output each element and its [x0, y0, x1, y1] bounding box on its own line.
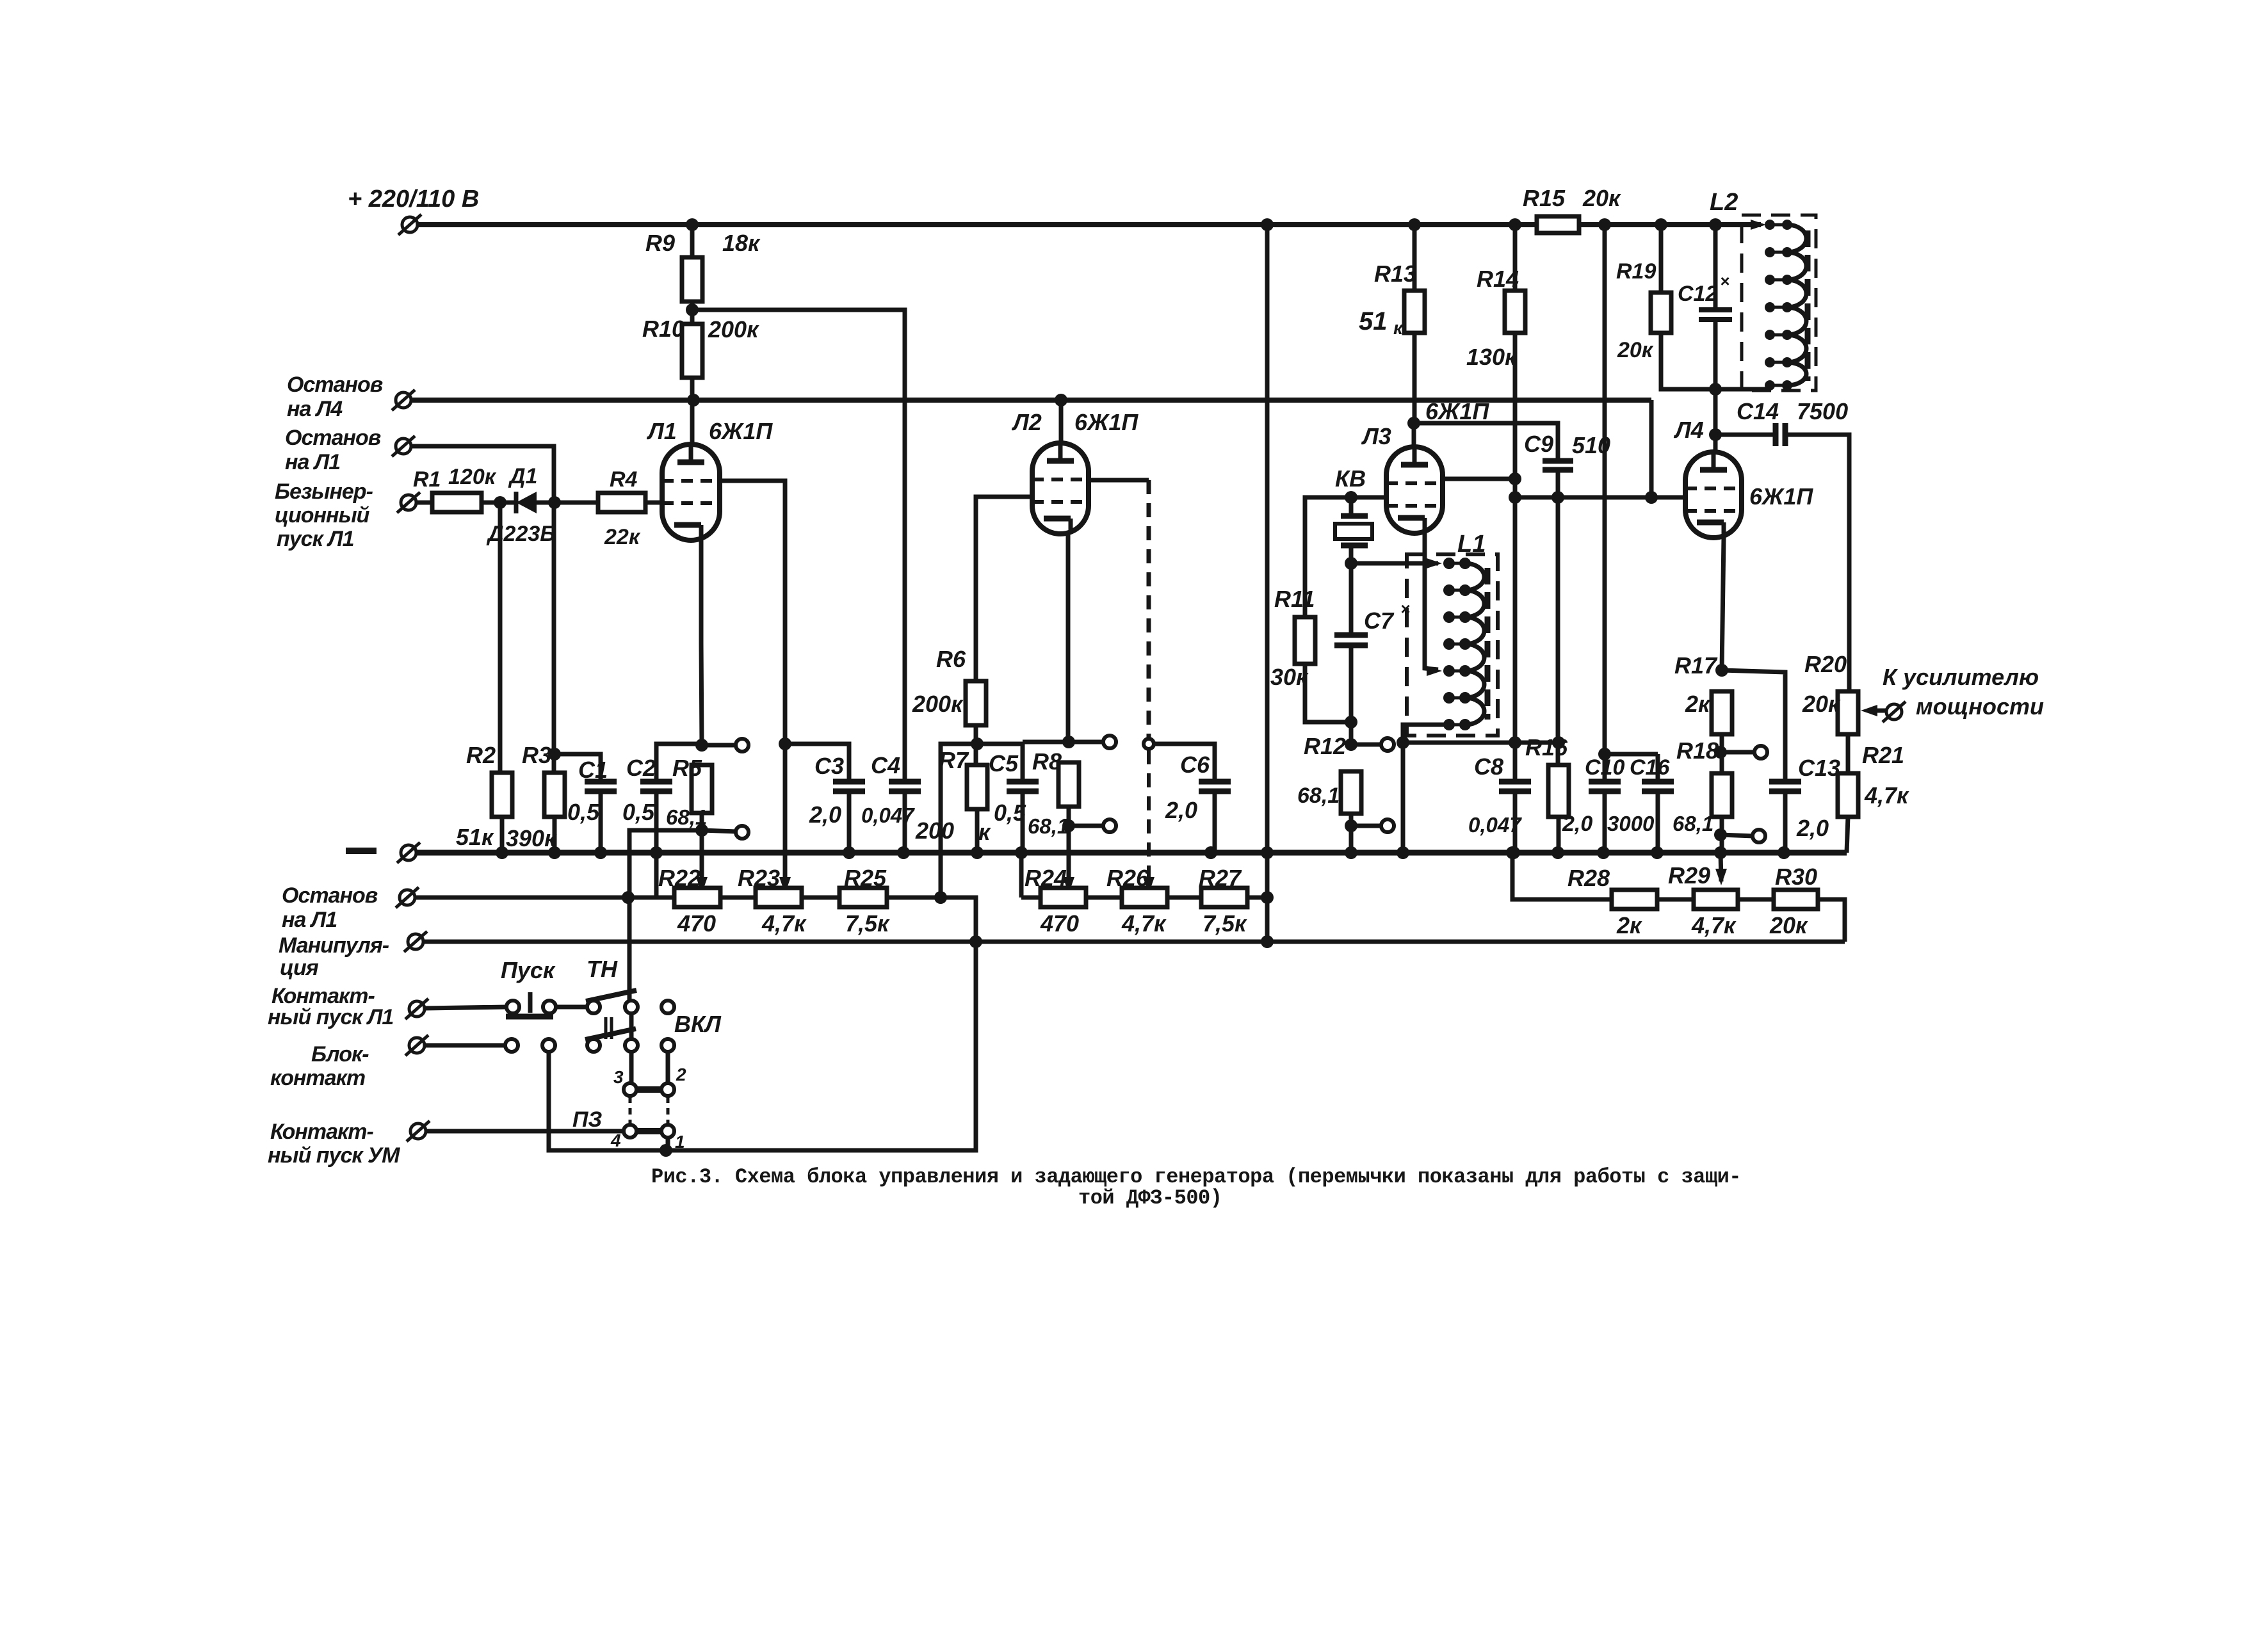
svg-text:390к: 390к — [506, 825, 557, 851]
svg-text:0,047: 0,047 — [861, 803, 915, 827]
svg-text:2к: 2к — [1685, 691, 1711, 717]
svg-text:R19: R19 — [1616, 259, 1656, 284]
svg-text:R14: R14 — [1477, 266, 1519, 292]
svg-text:Л3: Л3 — [1361, 423, 1391, 449]
svg-text:×: × — [1720, 271, 1729, 291]
svg-text:51: 51 — [1359, 307, 1388, 335]
svg-text:C3: C3 — [814, 753, 844, 779]
svg-text:0,047: 0,047 — [1468, 813, 1522, 837]
svg-text:2,0: 2,0 — [1796, 815, 1829, 841]
svg-text:200: 200 — [915, 817, 954, 844]
svg-text:R12: R12 — [1304, 733, 1346, 759]
svg-text:R27: R27 — [1199, 865, 1242, 891]
svg-text:к: к — [978, 819, 991, 845]
svg-text:4,7к: 4,7к — [761, 910, 807, 937]
svg-text:2,0: 2,0 — [809, 801, 841, 828]
svg-text:ПЗ: ПЗ — [572, 1107, 602, 1132]
svg-text:C1: C1 — [578, 757, 608, 783]
svg-text:R26: R26 — [1106, 865, 1149, 891]
svg-text:R25: R25 — [844, 865, 887, 891]
svg-text:Останов: Останов — [285, 426, 381, 450]
svg-text:2: 2 — [676, 1065, 686, 1084]
svg-text:22к: 22к — [604, 525, 641, 549]
svg-text:1: 1 — [675, 1132, 685, 1152]
svg-text:ция: ция — [280, 956, 319, 980]
svg-text:R11: R11 — [1274, 586, 1315, 612]
svg-text:ТН: ТН — [587, 956, 618, 982]
svg-text:51к: 51к — [456, 824, 494, 850]
svg-text:R6: R6 — [936, 646, 966, 672]
svg-text:R20: R20 — [1804, 651, 1847, 677]
svg-text:+ 220/110 В: + 220/110 В — [348, 186, 479, 213]
svg-text:68,1: 68,1 — [1673, 812, 1713, 835]
svg-text:R18: R18 — [1676, 737, 1719, 764]
svg-text:0,5: 0,5 — [622, 799, 655, 825]
svg-text:3000: 3000 — [1607, 812, 1655, 835]
svg-text:0,5: 0,5 — [567, 799, 600, 825]
svg-text:пуск Л1: пуск Л1 — [277, 527, 354, 551]
svg-text:R4: R4 — [610, 467, 638, 492]
svg-text:Л4: Л4 — [1673, 417, 1704, 443]
svg-text:68,1: 68,1 — [1297, 784, 1340, 808]
svg-text:R29: R29 — [1668, 862, 1710, 889]
svg-text:ный пуск УМ: ный пуск УМ — [268, 1143, 400, 1168]
svg-text:R10: R10 — [642, 316, 684, 342]
svg-text:Останов: Останов — [282, 883, 378, 908]
svg-text:18к: 18к — [722, 230, 761, 256]
svg-text:20к: 20к — [1617, 338, 1654, 362]
svg-text:120к: 120к — [448, 465, 497, 489]
svg-text:Безынер-: Безынер- — [275, 479, 373, 504]
svg-text:C13: C13 — [1798, 755, 1840, 781]
svg-text:C2: C2 — [626, 755, 656, 781]
svg-text:Останов: Останов — [287, 373, 383, 397]
svg-text:ный пуск Л1: ный пуск Л1 — [268, 1005, 393, 1029]
svg-text:R1: R1 — [413, 467, 441, 492]
svg-text:Блок-: Блок- — [311, 1042, 369, 1067]
svg-text:R17: R17 — [1674, 652, 1718, 679]
svg-text:6Ж1П: 6Ж1П — [1074, 409, 1138, 435]
svg-text:C7: C7 — [1364, 608, 1395, 634]
svg-text:C4: C4 — [871, 752, 900, 778]
svg-text:6Ж1П: 6Ж1П — [1425, 398, 1489, 424]
svg-text:2к: 2к — [1616, 912, 1642, 938]
svg-text:Контакт-: Контакт- — [270, 1120, 374, 1144]
svg-text:C5: C5 — [989, 750, 1019, 777]
svg-text:R13: R13 — [1374, 261, 1416, 287]
svg-text:6Ж1П: 6Ж1П — [1749, 483, 1813, 510]
svg-text:200к: 200к — [708, 316, 759, 342]
svg-text:R7: R7 — [939, 747, 969, 773]
svg-text:Пуск: Пуск — [501, 957, 556, 983]
svg-text:Л1: Л1 — [646, 418, 677, 444]
svg-text:Л2: Л2 — [1011, 409, 1042, 435]
svg-text:4,7к: 4,7к — [1121, 910, 1167, 937]
svg-text:68,1: 68,1 — [666, 805, 707, 829]
svg-text:4: 4 — [610, 1131, 621, 1150]
svg-text:3: 3 — [613, 1067, 624, 1087]
svg-text:C6: C6 — [1180, 752, 1210, 778]
svg-text:к: к — [1393, 318, 1404, 339]
svg-text:ВКЛ: ВКЛ — [674, 1011, 722, 1037]
svg-text:мощности: мощности — [1916, 693, 2044, 720]
svg-text:на Л1: на Л1 — [285, 450, 340, 474]
svg-text:C10: C10 — [1585, 755, 1624, 780]
svg-text:C16: C16 — [1630, 755, 1670, 780]
svg-text:R23: R23 — [738, 865, 780, 891]
svg-text:68,1: 68,1 — [1028, 814, 1069, 838]
svg-text:R22: R22 — [658, 865, 701, 891]
svg-text:470: 470 — [1040, 910, 1079, 937]
svg-text:ционный: ционный — [275, 503, 370, 527]
svg-text:R21: R21 — [1862, 742, 1904, 768]
svg-text:R24: R24 — [1025, 865, 1067, 891]
svg-text:C9: C9 — [1524, 431, 1553, 457]
svg-text:0,5: 0,5 — [994, 800, 1026, 826]
svg-text:R3: R3 — [522, 742, 551, 768]
svg-text:C14: C14 — [1737, 398, 1779, 424]
svg-text:7,5к: 7,5к — [845, 910, 890, 937]
svg-text:Рис.3. Схема блока управления: Рис.3. Схема блока управления и задающег… — [651, 1165, 1741, 1189]
svg-text:R5: R5 — [672, 755, 702, 781]
svg-text:на Л4: на Л4 — [287, 397, 343, 421]
svg-text:Д1: Д1 — [508, 464, 537, 488]
svg-text:6Ж1П: 6Ж1П — [709, 418, 773, 444]
svg-text:200к: 200к — [912, 691, 964, 717]
svg-text:20к: 20к — [1802, 691, 1841, 717]
svg-text:30к: 30к — [1270, 664, 1309, 690]
svg-text:Манипуля-: Манипуля- — [279, 933, 389, 958]
svg-text:той ДФЗ-500): той ДФЗ-500) — [1078, 1186, 1222, 1210]
svg-text:20к: 20к — [1582, 185, 1621, 211]
svg-text:контакт: контакт — [270, 1066, 365, 1090]
svg-text:Д223Б: Д223Б — [486, 522, 555, 546]
svg-text:20к: 20к — [1769, 912, 1808, 938]
svg-text:R30: R30 — [1775, 864, 1817, 890]
svg-text:L1: L1 — [1457, 531, 1486, 558]
svg-text:2,0: 2,0 — [1165, 797, 1197, 823]
svg-text:R15: R15 — [1523, 185, 1566, 211]
svg-text:R2: R2 — [466, 742, 496, 768]
svg-text:130к: 130к — [1466, 344, 1518, 370]
svg-text:4,7к: 4,7к — [1691, 912, 1737, 938]
svg-text:К усилителю: К усилителю — [1883, 664, 2039, 690]
svg-text:R9: R9 — [645, 230, 675, 256]
svg-text:R16: R16 — [1525, 734, 1568, 761]
svg-text:L2: L2 — [1710, 189, 1738, 216]
svg-text:7500: 7500 — [1797, 398, 1848, 424]
svg-text:на Л1: на Л1 — [282, 908, 337, 932]
svg-text:2,0: 2,0 — [1562, 812, 1592, 836]
svg-text:R8: R8 — [1032, 748, 1062, 775]
svg-text:C8: C8 — [1474, 753, 1503, 780]
svg-text:КВ: КВ — [1335, 465, 1366, 492]
svg-text:7,5к: 7,5к — [1203, 910, 1247, 937]
svg-text:4,7к: 4,7к — [1864, 782, 1909, 809]
svg-text:R28: R28 — [1567, 865, 1610, 891]
svg-text:470: 470 — [677, 910, 716, 937]
svg-text:C12: C12 — [1678, 282, 1717, 306]
